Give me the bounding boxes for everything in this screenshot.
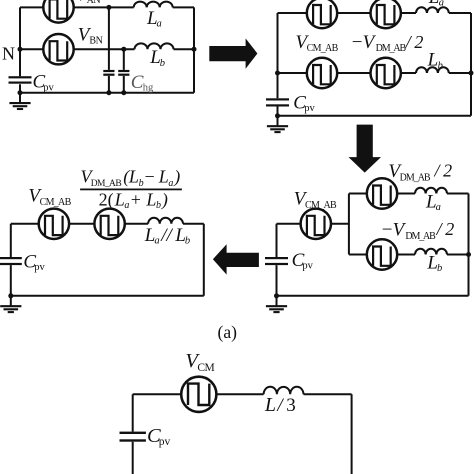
svg-text:L: L [114, 189, 125, 209]
svg-text:b: b [438, 60, 443, 71]
svg-text:L: L [158, 166, 169, 186]
svg-text:/: / [276, 395, 284, 416]
svg-text:DM_AB: DM_AB [376, 43, 407, 54]
svg-text:/ 2: / 2 [436, 219, 455, 239]
svg-text:CM_AB: CM_AB [307, 43, 339, 54]
svg-text:a: a [124, 200, 129, 211]
svg-text:b: b [437, 263, 442, 274]
svg-text:BN: BN [89, 36, 102, 47]
svg-text:b: b [160, 58, 165, 69]
svg-text:L: L [145, 189, 156, 209]
svg-text:−: − [382, 219, 393, 240]
svg-text:−: − [352, 32, 363, 53]
svg-text:L: L [428, 0, 440, 8]
svg-text:b: b [139, 178, 144, 189]
svg-text:/ 2: / 2 [434, 161, 453, 181]
svg-text:CM: CM [197, 362, 214, 374]
svg-text:L: L [264, 394, 276, 416]
svg-text:): ) [173, 166, 180, 187]
svg-text:N: N [2, 43, 15, 63]
svg-text:L: L [128, 166, 139, 186]
svg-text:L: L [427, 50, 439, 71]
svg-text:pv: pv [34, 262, 45, 273]
svg-text:−: − [145, 166, 155, 186]
svg-text:DM_AB: DM_AB [405, 231, 436, 242]
svg-text:+: + [131, 189, 141, 209]
svg-text:b: b [185, 236, 190, 247]
svg-text:pv: pv [304, 103, 315, 114]
svg-text:CM_AB: CM_AB [40, 197, 72, 208]
svg-text:CM_AB: CM_AB [305, 200, 337, 211]
svg-text:(a): (a) [218, 322, 238, 342]
svg-text:pv: pv [302, 261, 313, 272]
svg-text:pv: pv [159, 436, 171, 448]
svg-text:a: a [154, 236, 159, 247]
svg-text:hg: hg [143, 83, 154, 94]
svg-text:V: V [363, 32, 377, 53]
svg-text:DM_AB: DM_AB [400, 173, 431, 184]
svg-text:b: b [156, 200, 161, 211]
svg-text:/ 2: / 2 [405, 32, 424, 52]
svg-text:2(: 2( [99, 189, 114, 210]
svg-text:DM_AB: DM_AB [91, 179, 122, 189]
svg-text:a: a [157, 19, 162, 30]
svg-text:AN: AN [87, 0, 101, 6]
svg-text:a: a [168, 178, 173, 189]
svg-text:): ) [161, 189, 168, 210]
svg-text:a: a [436, 202, 441, 213]
svg-text:a: a [439, 0, 444, 8]
svg-text:pv: pv [43, 82, 54, 93]
svg-text:3: 3 [286, 395, 296, 416]
svg-text://: // [160, 225, 173, 246]
